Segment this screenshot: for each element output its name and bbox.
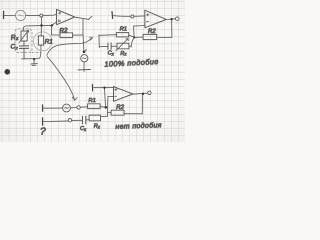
ink blot: [5, 69, 11, 75]
wire: [72, 119, 82, 121]
generator G2: [81, 55, 88, 62]
generator G1: [16, 10, 26, 20]
ground: [31, 60, 37, 66]
wire node column right: [131, 38, 134, 48]
input terminal J2: [111, 12, 114, 19]
junction: [103, 87, 105, 89]
output terminal TP3: [176, 17, 180, 21]
junction: [133, 36, 135, 38]
wire: [83, 62, 85, 70]
capacitor Cx: [108, 43, 111, 49]
svg-text:нет подобия: нет подобия: [115, 121, 162, 131]
generator G3: [63, 104, 71, 112]
ground: [78, 70, 90, 72]
resistor Rx (variable): [19, 30, 29, 42]
wire: [93, 87, 114, 89]
wire: [106, 97, 109, 117]
resistor R1: [88, 104, 101, 109]
resistor R2: [143, 34, 157, 39]
junction: [170, 18, 172, 20]
wire: [51, 26, 53, 35]
output terminal TP6: [148, 91, 151, 94]
junction: [33, 58, 35, 60]
svg-text:R1: R1: [45, 39, 54, 46]
wire: [52, 22, 57, 25]
op-amp U1: [57, 9, 75, 24]
wire: [23, 41, 25, 46]
wire: [112, 15, 130, 18]
wire: [157, 36, 172, 38]
op-amp U3: [114, 87, 133, 102]
annotation arrow B: [47, 57, 77, 101]
wire: [101, 115, 108, 117]
wire: [124, 113, 142, 115]
svg-text:R1: R1: [88, 98, 95, 104]
wire: [129, 35, 134, 37]
junction: [40, 24, 43, 27]
svg-text:Rx: Rx: [94, 124, 101, 130]
svg-text:R2: R2: [116, 105, 124, 111]
wire output: [75, 17, 89, 19]
wire: [171, 19, 173, 37]
wire: [134, 15, 145, 17]
wire output: [133, 93, 147, 94]
svg-text:?: ?: [40, 126, 46, 137]
wire: [43, 120, 68, 123]
input terminal J4: [91, 84, 93, 91]
junction: [51, 24, 54, 27]
svg-text:R1: R1: [120, 26, 127, 32]
wire rail: [23, 25, 52, 31]
wire: [82, 19, 84, 35]
node TP2: [131, 15, 134, 18]
wire: [129, 45, 131, 47]
dashed line: [32, 51, 40, 53]
wire output: [166, 18, 175, 21]
svg-text:Cx: Cx: [80, 126, 87, 132]
node TP1: [40, 14, 43, 17]
resistor Rx: [89, 115, 100, 121]
wire: [52, 34, 61, 36]
wire: [135, 36, 144, 38]
wire: [80, 106, 87, 108]
resistor R2: [111, 110, 124, 115]
wire: [23, 49, 25, 59]
resistor R1: [38, 36, 43, 45]
wire: [43, 14, 57, 16]
junction: [83, 51, 86, 54]
wire: [70, 107, 77, 109]
wire: [82, 35, 85, 52]
junction: [105, 106, 108, 109]
pencil oval around R1: [33, 32, 51, 51]
resistor R1: [116, 33, 128, 37]
wire - input lead: [108, 95, 114, 97]
arrow tick: [85, 50, 87, 52]
wire: [73, 34, 83, 36]
output terminal tick: [89, 16, 92, 19]
wire: [99, 34, 116, 37]
wire: [108, 111, 112, 113]
input terminal J3: [42, 105, 44, 111]
svg-text:R2: R2: [59, 27, 68, 35]
node TP4: [77, 106, 80, 109]
svg-text:Cx: Cx: [108, 51, 115, 57]
wire: [26, 14, 40, 16]
wire: [133, 26, 136, 37]
op-amp U2: [145, 10, 167, 28]
input terminal J1: [3, 11, 5, 18]
wire: [41, 17, 43, 24]
wire: [40, 26, 42, 36]
wire node column left: [98, 35, 100, 48]
wire: [99, 45, 108, 47]
wire bottom rail: [22, 45, 41, 59]
wire: [105, 88, 106, 107]
capacitor Cx: [19, 46, 28, 49]
resistor Rx (variable): [116, 39, 129, 51]
annotation arrow A: [47, 37, 93, 55]
wire: [4, 14, 16, 16]
input terminal J5: [42, 118, 44, 125]
junction: [142, 93, 144, 95]
wire - input lead: [134, 25, 145, 28]
resistor R2: [60, 33, 73, 38]
wire: [86, 119, 89, 121]
wire: [111, 45, 117, 47]
wire: [100, 106, 105, 109]
svg-text:Rx: Rx: [120, 51, 127, 57]
wire: [43, 107, 63, 109]
svg-text:R2: R2: [148, 29, 156, 35]
dashed selection box: [15, 29, 32, 53]
wire: [141, 94, 143, 114]
capacitor Cx: [82, 116, 85, 124]
node TP5: [68, 119, 71, 122]
